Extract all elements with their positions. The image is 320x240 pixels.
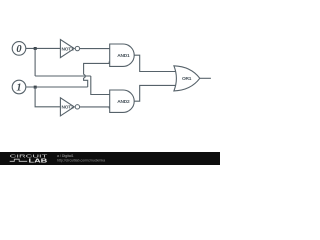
wire net A: horizontal run to riser (35, 75, 91, 77)
wire net B: branch down to NOT2 input (35, 87, 60, 107)
wire: AND2 output to OR1 lower input (134, 85, 177, 101)
OR gate OR1 (174, 66, 200, 91)
wire: OR1 output (200, 77, 211, 79)
svg-text:AND2: AND2 (117, 99, 130, 105)
svg-text:http://circuitlab.com/c/nudxmk: http://circuitlab.com/c/nudxmka (57, 158, 105, 162)
wire hop over net A (84, 75, 86, 78)
svg-text:NOT1: NOT1 (62, 46, 75, 52)
node B junction dot (34, 86, 37, 89)
AND gate AND2 (110, 90, 135, 112)
node A junction dot (34, 47, 37, 50)
svg-text:AND1: AND1 (117, 53, 130, 59)
NOT gate NOT1 (60, 40, 79, 58)
wire net A: drop to AND2 upper input (91, 76, 110, 95)
NOT gate NOT2 (60, 98, 79, 116)
wire net B: riser with jog toward AND1 lower input (84, 78, 88, 87)
svg-text:0: 0 (16, 44, 22, 55)
svg-text:1: 1 (16, 83, 21, 94)
input terminal 1 (12, 80, 26, 94)
wire net B: input 1 horizontal run (26, 86, 88, 88)
CircuitLab logo: waveform (10, 159, 28, 161)
input terminal 0 (12, 42, 26, 56)
wire: NOT2 output to AND2 lower input (80, 107, 110, 108)
svg-text:NOT2: NOT2 (62, 105, 75, 111)
wire: NOT1 output to AND1 upper input (80, 48, 110, 50)
footer bar (0, 152, 220, 165)
svg-text:a / Digital1: a / Digital1 (57, 154, 74, 158)
wire net A: input 0 to NOT1 input (26, 47, 61, 49)
wire: AND1 output to OR1 upper input (134, 55, 177, 71)
wire net B: riser continues to AND1 lower input (84, 62, 110, 75)
wire net A: branch down from junction (34, 48, 36, 76)
svg-text:LAB: LAB (29, 159, 48, 165)
svg-text:OR1: OR1 (182, 76, 192, 82)
AND gate AND1 (110, 44, 135, 66)
